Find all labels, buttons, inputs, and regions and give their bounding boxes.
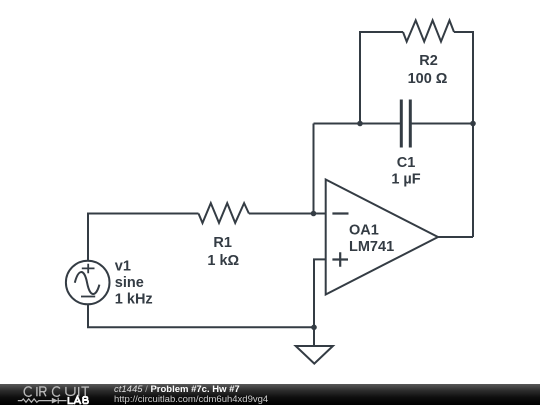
svg-text:100 Ω: 100 Ω [408, 71, 448, 87]
capacitor C1 plates [401, 100, 410, 148]
wire C1 left lead [314, 123, 402, 125]
op-amp OA1 triangle [326, 180, 438, 295]
logo letter T [81, 387, 89, 396]
logo letter U [66, 387, 75, 396]
voltage source V1 circle [66, 261, 110, 305]
wire input rail from source to R1 [88, 214, 199, 283]
logo letter C [24, 387, 31, 397]
voltage source sine wave [75, 272, 100, 294]
logo diode triangle [52, 398, 58, 404]
logo diode cathode bar and wire [58, 398, 66, 404]
logo letter B [83, 397, 88, 404]
junction node feedback left [357, 121, 363, 127]
resistor R2 [403, 20, 454, 41]
wire source bottom to ground rail [88, 283, 314, 327]
svg-text:1 µF: 1 µF [391, 172, 420, 188]
svg-text:v1: v1 [115, 259, 131, 275]
wire feedback top-left corner [360, 32, 403, 124]
logo resistor squiggle [18, 399, 52, 402]
svg-text:R2: R2 [419, 53, 438, 69]
wire feedback top-right corner [454, 32, 473, 124]
svg-text:1 kHz: 1 kHz [115, 292, 153, 308]
voltage source minus sign [81, 296, 95, 298]
junction node feedback right [470, 121, 476, 127]
resistor R1 [199, 203, 249, 223]
logo letter I [36, 387, 38, 396]
svg-text:1 kΩ: 1 kΩ [207, 253, 239, 269]
CircuitLab logo [0, 384, 110, 405]
wire non-inverting input [314, 259, 330, 327]
voltage source plus sign [82, 264, 95, 274]
wire R1 to op-amp [249, 213, 330, 215]
wire inverting feedback vertical [313, 124, 315, 214]
ground [296, 346, 333, 364]
footer text [114, 385, 414, 404]
op-amp minus symbol [332, 212, 348, 214]
wire C1 right lead [411, 123, 473, 125]
wire output [438, 236, 473, 238]
svg-text:R1: R1 [213, 235, 232, 251]
svg-text:sine: sine [115, 275, 144, 291]
wire ground stub [313, 327, 315, 350]
logo letter I [78, 387, 80, 396]
logo letter A [74, 397, 81, 405]
op-amp plus symbol [332, 252, 348, 267]
svg-text:LM741: LM741 [349, 239, 394, 255]
svg-text:C1: C1 [397, 155, 416, 171]
svg-text:OA1: OA1 [349, 223, 379, 239]
footer bar [0, 384, 540, 405]
logo letter L [68, 397, 73, 404]
logo letter R [40, 387, 46, 396]
junction node at inverting input [311, 211, 317, 217]
logo letter C [52, 387, 59, 397]
junction node ground rail [311, 325, 317, 331]
wire output right vertical [472, 124, 474, 238]
